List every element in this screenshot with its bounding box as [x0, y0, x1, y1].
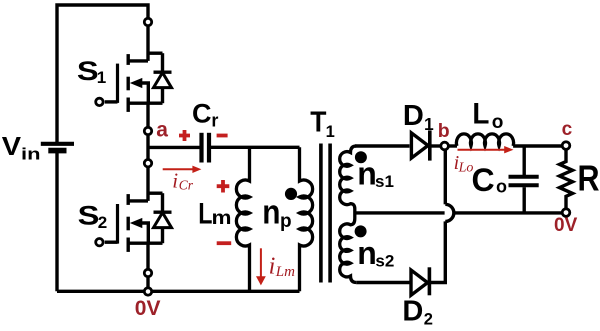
svg-text:D: D — [403, 100, 424, 132]
svg-text:i: i — [269, 253, 276, 279]
svg-text:n: n — [262, 193, 280, 231]
svg-text:T: T — [310, 107, 326, 139]
svg-text:C: C — [472, 162, 495, 198]
svg-text:2: 2 — [424, 310, 433, 328]
svg-text:n: n — [357, 156, 377, 192]
svg-text:C: C — [192, 99, 212, 129]
svg-text:b: b — [438, 120, 450, 142]
svg-text:s1: s1 — [375, 172, 394, 191]
svg-text:1: 1 — [424, 114, 434, 134]
svg-text:Cr: Cr — [179, 177, 194, 192]
svg-text:m: m — [212, 208, 232, 229]
svg-text:Lm: Lm — [275, 264, 295, 280]
svg-text:0V: 0V — [554, 215, 578, 236]
svg-text:1: 1 — [97, 68, 106, 87]
svg-text:S: S — [78, 201, 100, 231]
svg-text:L: L — [472, 98, 489, 131]
svg-text:i: i — [172, 169, 178, 193]
svg-text:0V: 0V — [135, 297, 161, 320]
svg-text:in: in — [21, 145, 41, 164]
svg-text:V: V — [2, 131, 22, 161]
svg-text:L: L — [198, 197, 212, 230]
svg-text:p: p — [280, 211, 292, 232]
svg-text:n: n — [357, 235, 377, 271]
svg-text:c: c — [562, 119, 573, 140]
svg-text:o: o — [496, 177, 507, 197]
svg-text:S: S — [77, 56, 99, 86]
svg-text:r: r — [211, 110, 218, 130]
svg-text:a: a — [156, 118, 168, 141]
svg-text:s2: s2 — [375, 252, 394, 271]
svg-text:D: D — [402, 295, 423, 327]
svg-text:o: o — [492, 112, 504, 133]
svg-text:2: 2 — [98, 213, 107, 232]
svg-text:Lo: Lo — [458, 160, 474, 175]
svg-text:1: 1 — [326, 123, 335, 141]
svg-text:R: R — [578, 158, 600, 199]
